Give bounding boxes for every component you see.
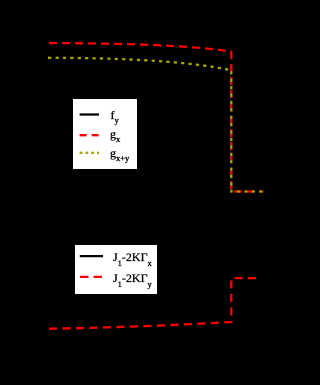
legend sample J1-2KG_x (black solid): [80, 255, 103, 257]
legend sample g_x (red dashed): [80, 134, 99, 136]
legend sample g_x+y (yellow dotted): [80, 152, 99, 154]
legend top panel: [73, 99, 137, 169]
curve g_x+y (dark yellow dotted, top panel): [48, 58, 264, 192]
legend sample J1-2KG_y (red dashed): [80, 276, 104, 278]
curve J1-2KGamma_y (red dashed, bottom panel): [49, 278, 257, 329]
legend sample f_y (black solid): [80, 113, 99, 115]
curve g_x (red dashed, top panel): [49, 43, 264, 192]
legend bottom panel: [75, 245, 157, 294]
